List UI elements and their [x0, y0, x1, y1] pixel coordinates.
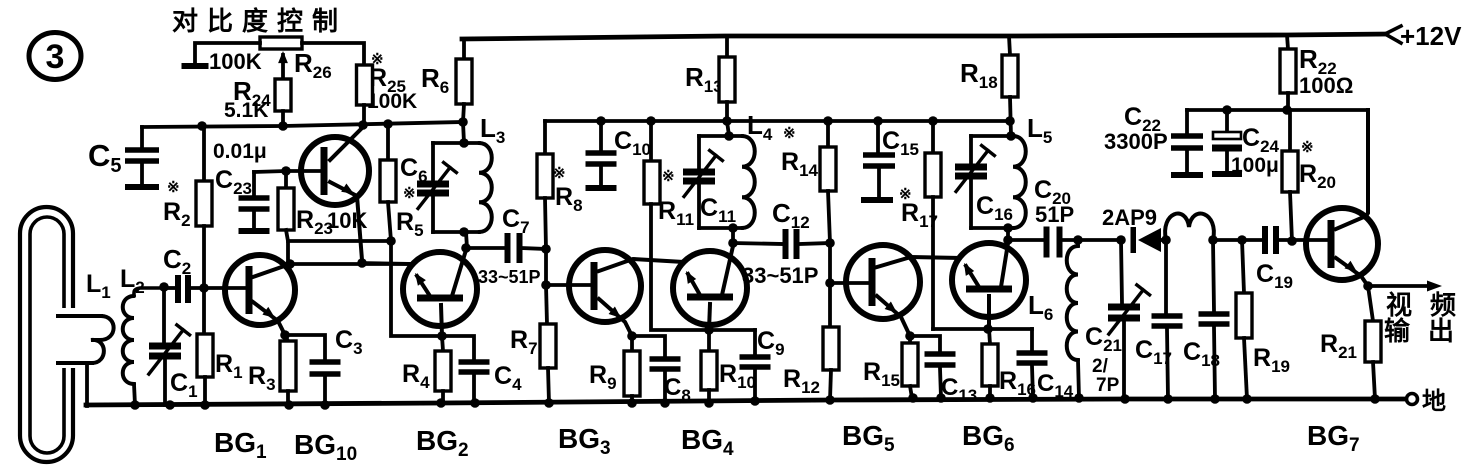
svg-text:5.1K: 5.1K — [224, 99, 268, 122]
svg-text:100Ω: 100Ω — [1299, 73, 1353, 98]
svg-text:7P: 7P — [1096, 375, 1120, 396]
svg-text:100K: 100K — [209, 49, 262, 74]
svg-text:+12V: +12V — [1400, 21, 1462, 51]
svg-text:输出: 输出 — [1384, 316, 1472, 346]
svg-text:51P: 51P — [1035, 202, 1074, 227]
svg-text:※: ※ — [662, 168, 675, 185]
svg-text:※: ※ — [1301, 139, 1314, 156]
svg-text:2/: 2/ — [1092, 356, 1109, 377]
svg-text:33~51P: 33~51P — [478, 267, 541, 287]
svg-text:地: 地 — [1422, 388, 1446, 415]
svg-text:※: ※ — [783, 125, 796, 142]
svg-text:※: ※ — [553, 165, 566, 182]
svg-text:对比度控制: 对比度控制 — [172, 6, 347, 36]
svg-text:100K: 100K — [367, 90, 417, 113]
svg-text:※: ※ — [403, 185, 416, 202]
svg-text:※: ※ — [167, 179, 180, 196]
svg-text:3300P: 3300P — [1104, 129, 1168, 154]
svg-text:0.01μ: 0.01μ — [213, 140, 267, 163]
svg-text:3: 3 — [46, 38, 65, 76]
svg-text:33~51P: 33~51P — [742, 263, 818, 288]
svg-text:2AP9: 2AP9 — [1102, 205, 1157, 230]
